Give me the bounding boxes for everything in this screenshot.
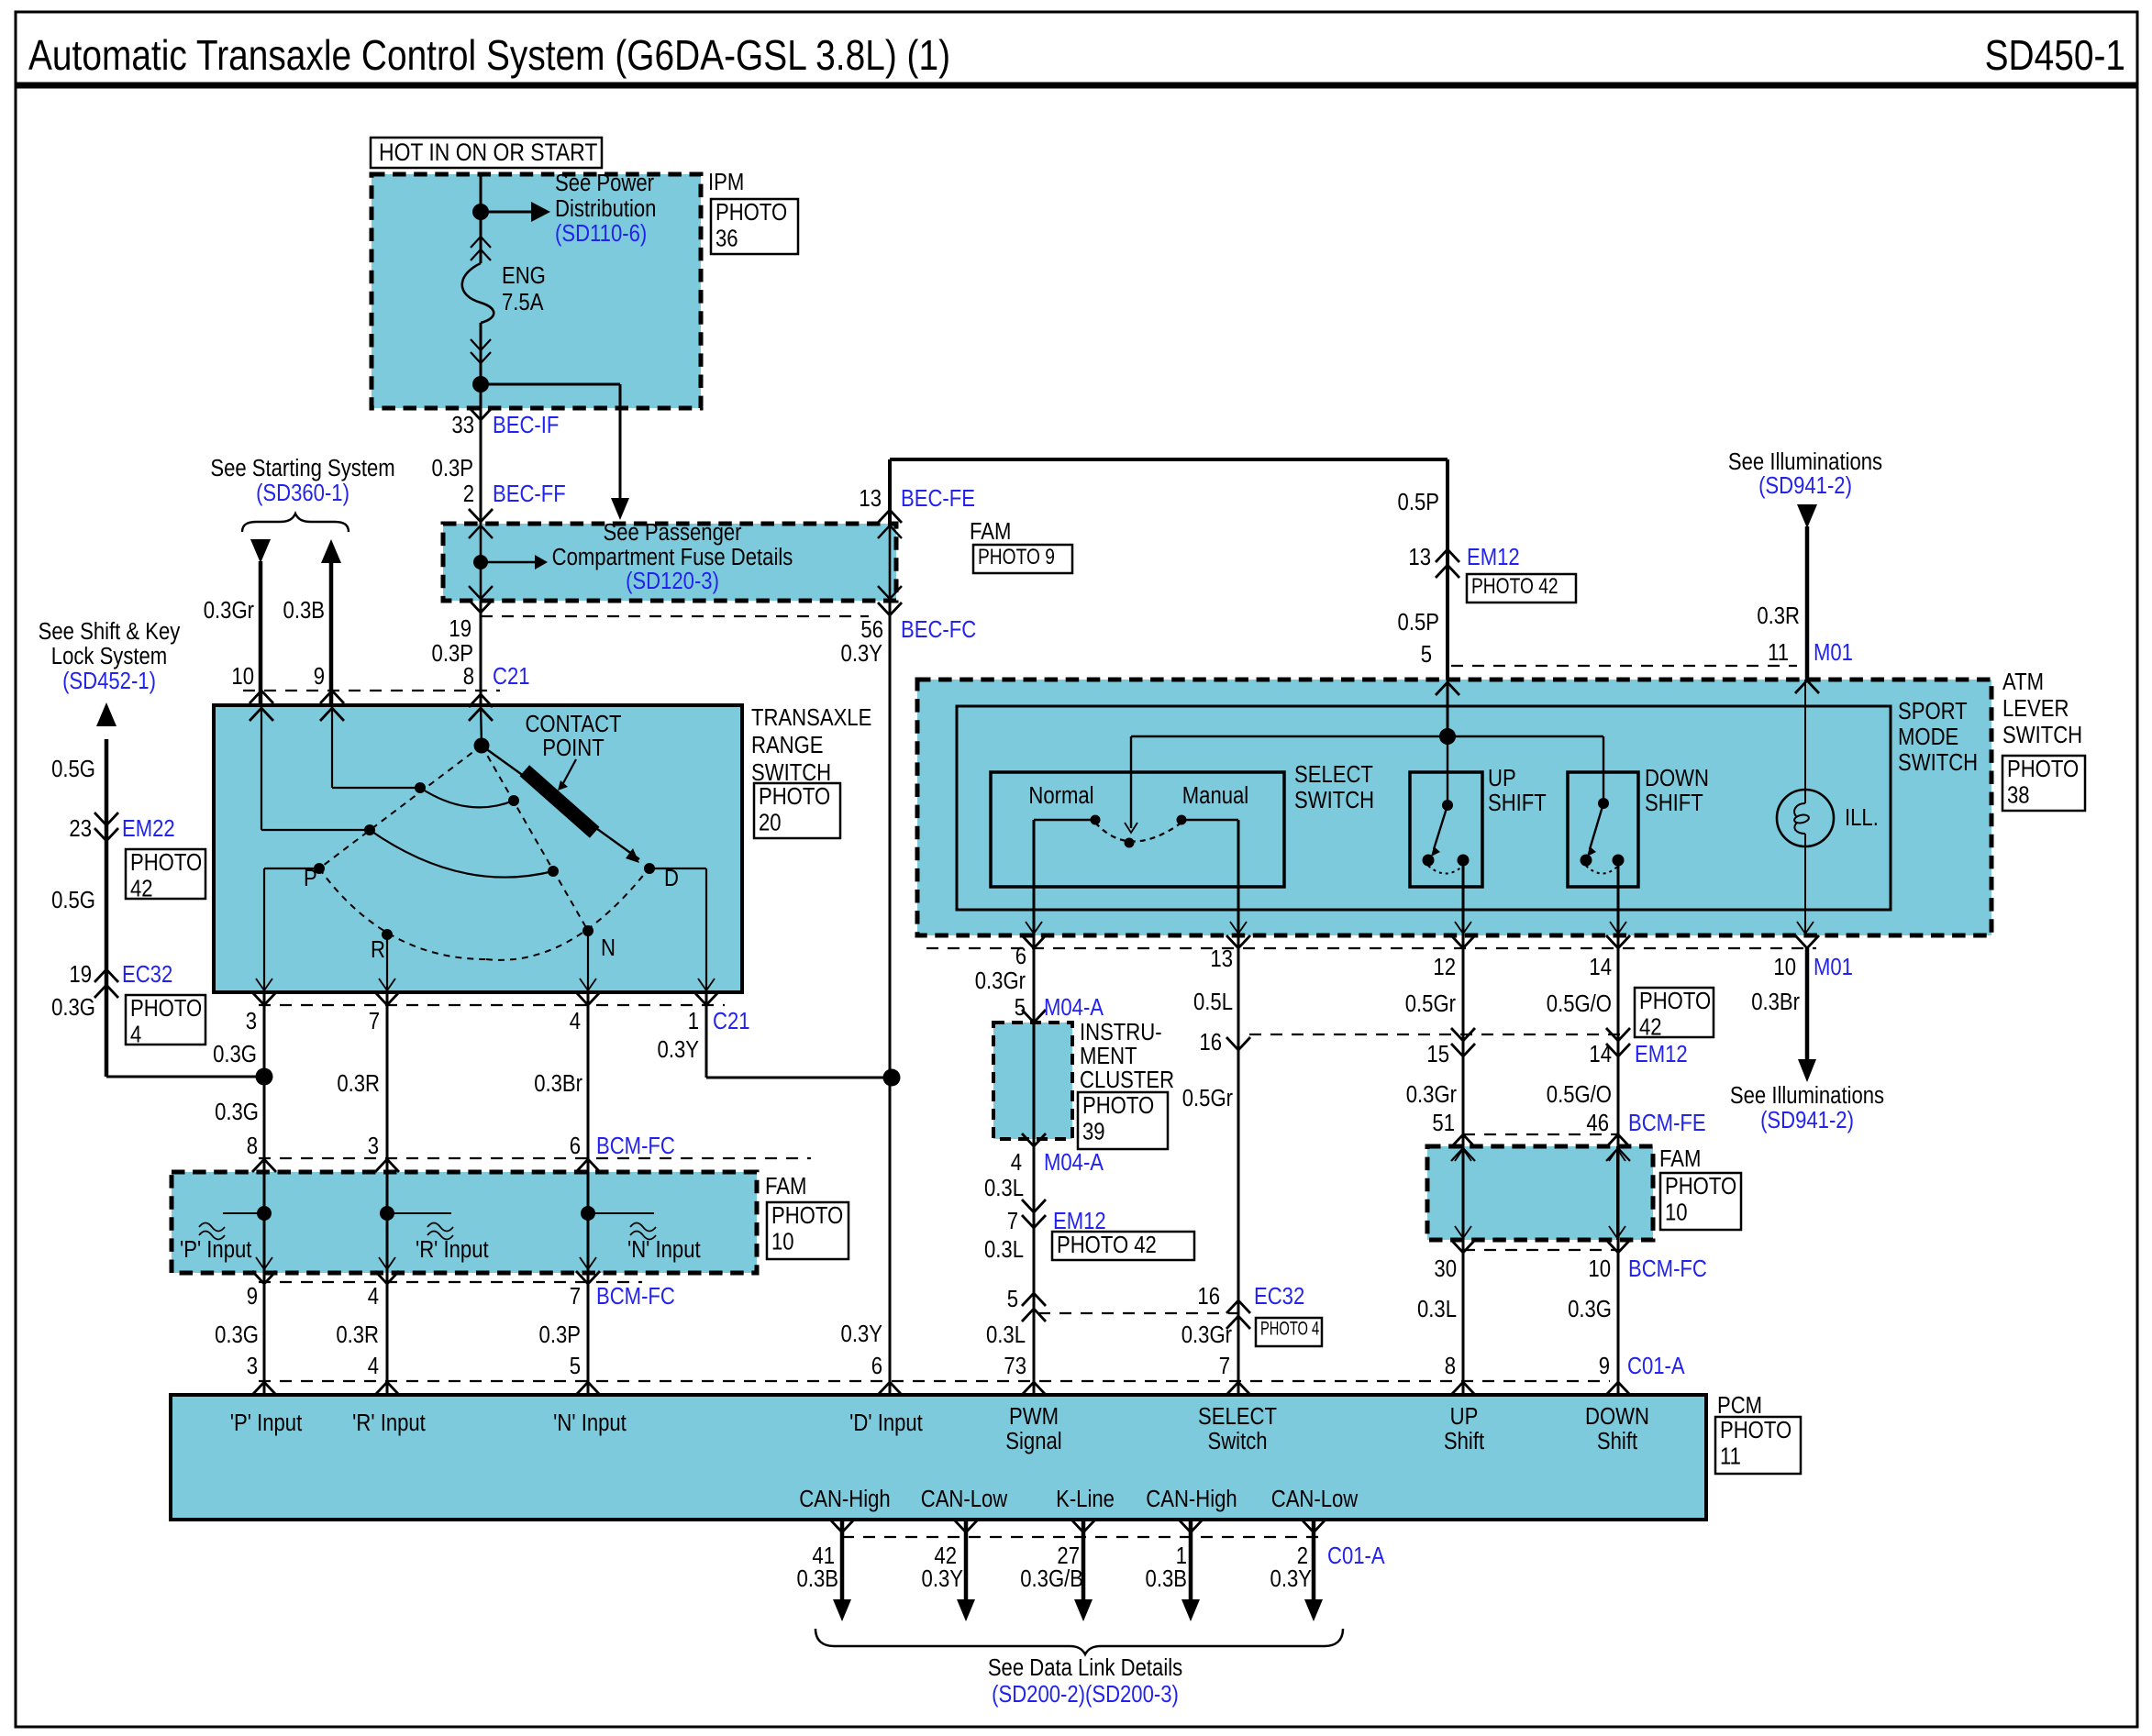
svg-text:5: 5 — [1015, 994, 1026, 1021]
svg-text:0.3G: 0.3G — [215, 1099, 259, 1125]
svg-text:14: 14 — [1589, 954, 1612, 980]
svg-text:0.3G: 0.3G — [51, 994, 95, 1021]
svg-text:PCM: PCM — [1717, 1392, 1762, 1419]
svg-text:19: 19 — [449, 615, 471, 642]
svg-text:DOWN: DOWN — [1645, 765, 1709, 791]
svg-text:D: D — [664, 865, 679, 891]
svg-text:EC32: EC32 — [1254, 1283, 1304, 1310]
svg-text:See Data Link Details: See Data Link Details — [988, 1654, 1182, 1681]
svg-text:M04-A: M04-A — [1044, 994, 1104, 1021]
svg-text:BCM-FE: BCM-FE — [1628, 1110, 1706, 1136]
svg-text:19: 19 — [69, 961, 92, 988]
svg-text:30: 30 — [1434, 1255, 1457, 1282]
svg-text:PHOTO 42: PHOTO 42 — [1057, 1232, 1157, 1258]
svg-text:4: 4 — [130, 1022, 141, 1048]
svg-text:PHOTO: PHOTO — [715, 199, 787, 226]
svg-text:'P' Input: 'P' Input — [180, 1236, 252, 1263]
svg-text:16: 16 — [1197, 1283, 1220, 1310]
svg-text:7: 7 — [570, 1283, 581, 1310]
svg-text:0.5G: 0.5G — [51, 887, 95, 913]
svg-text:36: 36 — [715, 226, 738, 252]
svg-text:PHOTO: PHOTO — [1720, 1417, 1791, 1443]
svg-text:SWITCH: SWITCH — [2002, 722, 2082, 748]
svg-text:0.3Y: 0.3Y — [658, 1036, 699, 1063]
svg-text:0.3L: 0.3L — [984, 1175, 1024, 1201]
svg-text:0.3Gr: 0.3Gr — [1406, 1081, 1457, 1108]
svg-text:0.5P: 0.5P — [1398, 489, 1439, 515]
svg-text:PHOTO: PHOTO — [771, 1202, 843, 1229]
svg-text:CLUSTER: CLUSTER — [1080, 1067, 1174, 1093]
svg-text:POINT: POINT — [542, 735, 605, 761]
svg-text:13: 13 — [1210, 945, 1233, 972]
svg-text:EM22: EM22 — [122, 815, 175, 842]
svg-text:Manual: Manual — [1182, 782, 1248, 809]
svg-text:42: 42 — [1639, 1014, 1662, 1041]
svg-text:BEC-FE: BEC-FE — [901, 485, 975, 512]
svg-text:RANGE: RANGE — [751, 732, 824, 758]
svg-text:'N' Input: 'N' Input — [553, 1410, 627, 1436]
svg-text:10: 10 — [231, 663, 254, 690]
svg-text:0.3Gr: 0.3Gr — [204, 597, 254, 624]
svg-text:(SD120-3): (SD120-3) — [626, 568, 719, 594]
svg-text:10: 10 — [1773, 954, 1796, 980]
svg-text:6: 6 — [1015, 943, 1026, 969]
svg-text:11: 11 — [1720, 1443, 1741, 1470]
svg-text:13: 13 — [1408, 544, 1431, 570]
svg-text:Lock System: Lock System — [51, 643, 167, 669]
svg-text:P: P — [304, 865, 317, 891]
svg-text:0.3G/B: 0.3G/B — [1020, 1565, 1083, 1592]
svg-text:PHOTO: PHOTO — [2007, 756, 2079, 782]
svg-text:K-Line: K-Line — [1056, 1486, 1115, 1512]
svg-text:M01: M01 — [1814, 639, 1853, 666]
svg-text:73: 73 — [1004, 1353, 1026, 1379]
svg-text:0.3Y: 0.3Y — [922, 1565, 963, 1592]
svg-text:PHOTO: PHOTO — [759, 783, 830, 810]
svg-text:N: N — [601, 934, 616, 961]
svg-text:4: 4 — [1011, 1149, 1022, 1176]
svg-text:'P' Input: 'P' Input — [230, 1410, 303, 1436]
svg-text:See Shift & Key: See Shift & Key — [39, 618, 181, 645]
svg-text:SHIFT: SHIFT — [1645, 790, 1703, 816]
svg-text:4: 4 — [368, 1353, 379, 1379]
svg-text:5: 5 — [570, 1353, 581, 1379]
svg-text:FAM: FAM — [1659, 1145, 1701, 1172]
svg-text:C01-A: C01-A — [1327, 1542, 1385, 1569]
svg-text:13: 13 — [859, 485, 882, 512]
svg-text:0.3L: 0.3L — [986, 1321, 1026, 1348]
svg-text:5: 5 — [1421, 641, 1432, 668]
svg-text:42: 42 — [130, 876, 153, 902]
svg-text:8: 8 — [247, 1133, 258, 1159]
svg-text:See Passenger: See Passenger — [604, 519, 742, 546]
svg-text:0.3R: 0.3R — [1757, 603, 1800, 629]
svg-text:TRANSAXLE: TRANSAXLE — [751, 704, 871, 731]
svg-text:C21: C21 — [713, 1008, 750, 1034]
svg-text:5: 5 — [1007, 1286, 1018, 1312]
svg-text:C01-A: C01-A — [1627, 1353, 1685, 1379]
svg-text:SWITCH: SWITCH — [751, 759, 831, 786]
svg-text:Signal: Signal — [1005, 1428, 1061, 1454]
svg-text:9: 9 — [247, 1283, 258, 1310]
svg-text:See Power: See Power — [555, 170, 654, 196]
svg-text:See Starting System: See Starting System — [210, 455, 394, 481]
svg-text:SD450-1: SD450-1 — [1985, 32, 2125, 80]
svg-text:DOWN: DOWN — [1585, 1403, 1649, 1430]
svg-text:PHOTO: PHOTO — [1665, 1173, 1736, 1200]
svg-text:(SD452-1): (SD452-1) — [62, 668, 156, 694]
svg-text:SHIFT: SHIFT — [1488, 790, 1547, 816]
svg-text:(SD360-1): (SD360-1) — [256, 480, 349, 506]
svg-text:MODE: MODE — [1898, 724, 1958, 750]
svg-text:0.3P: 0.3P — [539, 1321, 581, 1348]
svg-text:0.3B: 0.3B — [1146, 1565, 1187, 1592]
svg-text:R: R — [371, 936, 385, 963]
svg-text:Automatic Transaxle Control Sy: Automatic Transaxle Control System (G6DA… — [28, 32, 950, 80]
svg-text:See Illuminations: See Illuminations — [1728, 448, 1882, 475]
svg-text:0.3Y: 0.3Y — [1270, 1565, 1312, 1592]
svg-text:CONTACT: CONTACT — [525, 711, 621, 737]
svg-text:FAM: FAM — [765, 1173, 806, 1200]
svg-text:0.3P: 0.3P — [432, 455, 473, 481]
svg-text:INSTRU-: INSTRU- — [1080, 1019, 1162, 1045]
svg-text:7.5A: 7.5A — [502, 289, 544, 315]
svg-text:0.3G: 0.3G — [213, 1041, 257, 1067]
svg-text:Switch: Switch — [1207, 1428, 1267, 1454]
svg-text:SPORT: SPORT — [1898, 698, 1968, 724]
svg-text:23: 23 — [69, 815, 92, 842]
svg-text:20: 20 — [759, 810, 782, 836]
svg-text:Normal: Normal — [1028, 782, 1093, 809]
svg-text:PHOTO: PHOTO — [1639, 988, 1711, 1014]
svg-text:(SD941-2): (SD941-2) — [1758, 472, 1852, 499]
svg-text:M01: M01 — [1814, 954, 1853, 980]
svg-text:SWITCH: SWITCH — [1294, 787, 1374, 813]
svg-text:0.3Br: 0.3Br — [1751, 989, 1800, 1015]
svg-text:(SD200-2)(SD200-3): (SD200-2)(SD200-3) — [992, 1681, 1179, 1708]
svg-text:'D' Input: 'D' Input — [849, 1410, 923, 1436]
svg-text:BEC-FF: BEC-FF — [493, 481, 566, 507]
svg-text:MENT: MENT — [1080, 1043, 1137, 1069]
svg-text:BEC-IF: BEC-IF — [493, 412, 559, 438]
svg-text:0.5G/O: 0.5G/O — [1547, 1081, 1612, 1108]
svg-text:11: 11 — [1768, 639, 1789, 666]
svg-text:0.3G: 0.3G — [1568, 1296, 1612, 1322]
svg-text:7: 7 — [369, 1008, 380, 1034]
svg-text:Compartment Fuse Details: Compartment Fuse Details — [552, 544, 793, 570]
svg-text:'N' Input: 'N' Input — [627, 1236, 701, 1263]
svg-text:'R' Input: 'R' Input — [416, 1236, 489, 1263]
svg-text:'R' Input: 'R' Input — [352, 1410, 426, 1436]
svg-text:6: 6 — [570, 1133, 581, 1159]
svg-text:1: 1 — [688, 1008, 699, 1034]
svg-text:10: 10 — [771, 1229, 794, 1255]
svg-text:0.3Br: 0.3Br — [534, 1070, 582, 1097]
svg-text:8: 8 — [463, 663, 474, 690]
svg-text:0.5G/O: 0.5G/O — [1547, 990, 1612, 1017]
svg-text:BCM-FC: BCM-FC — [596, 1133, 675, 1159]
svg-text:39: 39 — [1082, 1119, 1105, 1145]
svg-text:0.3B: 0.3B — [283, 597, 325, 624]
svg-text:Shift: Shift — [1444, 1428, 1484, 1454]
svg-text:10: 10 — [1588, 1255, 1611, 1282]
svg-text:PHOTO 9: PHOTO 9 — [978, 544, 1055, 569]
svg-text:2: 2 — [463, 481, 474, 507]
svg-text:UP: UP — [1488, 765, 1516, 791]
svg-text:0.3Y: 0.3Y — [841, 1321, 882, 1347]
svg-text:EC32: EC32 — [122, 961, 172, 988]
svg-text:0.3R: 0.3R — [336, 1321, 379, 1348]
svg-text:CAN-High: CAN-High — [1146, 1486, 1237, 1512]
svg-text:SWITCH: SWITCH — [1898, 749, 1978, 776]
svg-text:38: 38 — [2007, 782, 2030, 809]
svg-text:0.3B: 0.3B — [797, 1565, 838, 1592]
svg-text:3: 3 — [246, 1008, 257, 1034]
svg-text:CAN-High: CAN-High — [799, 1486, 890, 1512]
svg-text:16: 16 — [1199, 1029, 1222, 1056]
svg-text:12: 12 — [1433, 954, 1456, 980]
svg-text:0.3R: 0.3R — [337, 1070, 380, 1097]
svg-text:0.3Gr: 0.3Gr — [1181, 1321, 1232, 1348]
svg-text:PHOTO: PHOTO — [130, 995, 202, 1022]
svg-text:ILL.: ILL. — [1845, 804, 1879, 831]
svg-text:3: 3 — [247, 1353, 258, 1379]
svg-text:0.5Gr: 0.5Gr — [1405, 990, 1456, 1017]
svg-text:3: 3 — [368, 1133, 379, 1159]
svg-text:HOT IN ON OR START: HOT IN ON OR START — [379, 138, 597, 166]
svg-text:0.3L: 0.3L — [984, 1236, 1024, 1263]
svg-text:BEC-FC: BEC-FC — [901, 616, 976, 643]
svg-text:BCM-FC: BCM-FC — [1628, 1255, 1707, 1282]
svg-text:LEVER: LEVER — [2002, 695, 2069, 722]
svg-text:4: 4 — [570, 1008, 581, 1034]
svg-text:CAN-Low: CAN-Low — [1271, 1486, 1359, 1512]
svg-text:UP: UP — [1450, 1403, 1479, 1430]
svg-text:0.3Y: 0.3Y — [841, 640, 882, 667]
svg-text:SELECT: SELECT — [1294, 761, 1373, 788]
svg-text:SELECT: SELECT — [1198, 1403, 1277, 1430]
svg-text:56: 56 — [860, 616, 883, 643]
svg-text:0.5L: 0.5L — [1193, 989, 1233, 1015]
svg-text:6: 6 — [871, 1353, 882, 1379]
svg-text:0.5P: 0.5P — [1398, 609, 1439, 636]
svg-text:0.5G: 0.5G — [51, 756, 95, 782]
svg-text:See Illuminations: See Illuminations — [1730, 1082, 1884, 1109]
svg-text:0.5Gr: 0.5Gr — [1182, 1085, 1233, 1111]
svg-text:33: 33 — [451, 412, 474, 438]
svg-text:EM12: EM12 — [1053, 1208, 1106, 1234]
svg-text:EM12: EM12 — [1635, 1041, 1688, 1067]
svg-text:PHOTO: PHOTO — [130, 849, 202, 876]
svg-text:7: 7 — [1007, 1208, 1018, 1234]
svg-text:0.3L: 0.3L — [1417, 1296, 1457, 1322]
svg-text:PHOTO 42: PHOTO 42 — [1471, 573, 1559, 599]
svg-text:10: 10 — [1665, 1200, 1688, 1226]
svg-text:Distribution: Distribution — [555, 195, 656, 222]
svg-text:51: 51 — [1432, 1110, 1455, 1136]
svg-text:C21: C21 — [493, 663, 530, 690]
svg-text:14: 14 — [1589, 1041, 1612, 1067]
svg-text:8: 8 — [1445, 1353, 1456, 1379]
svg-text:46: 46 — [1586, 1110, 1609, 1136]
svg-text:(SD110-6): (SD110-6) — [555, 220, 647, 247]
svg-text:0.3Gr: 0.3Gr — [975, 968, 1026, 994]
svg-text:0.3G: 0.3G — [215, 1321, 259, 1348]
svg-text:PWM: PWM — [1009, 1403, 1059, 1430]
svg-text:7: 7 — [1219, 1353, 1230, 1379]
svg-text:IPM: IPM — [708, 169, 744, 195]
svg-text:9: 9 — [1599, 1353, 1610, 1379]
svg-text:EM12: EM12 — [1467, 544, 1520, 570]
svg-text:4: 4 — [368, 1283, 379, 1310]
svg-text:PHOTO: PHOTO — [1082, 1092, 1154, 1119]
svg-text:BCM-FC: BCM-FC — [596, 1283, 675, 1310]
svg-text:ENG: ENG — [502, 262, 546, 289]
svg-text:CAN-Low: CAN-Low — [921, 1486, 1008, 1512]
svg-text:PHOTO 4: PHOTO 4 — [1260, 1318, 1319, 1339]
svg-text:(SD941-2): (SD941-2) — [1760, 1107, 1854, 1133]
svg-text:Shift: Shift — [1597, 1428, 1637, 1454]
svg-text:ATM: ATM — [2002, 669, 2044, 695]
svg-text:FAM: FAM — [970, 518, 1011, 545]
svg-text:15: 15 — [1426, 1041, 1449, 1067]
svg-text:M04-A: M04-A — [1044, 1149, 1104, 1176]
svg-text:9: 9 — [314, 663, 325, 690]
